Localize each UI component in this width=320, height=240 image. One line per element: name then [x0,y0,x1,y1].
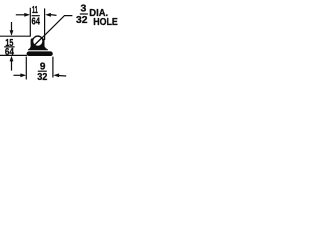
arrowhead left pointing right (9/32) [20,73,26,77]
svg-text:3: 3 [80,2,86,14]
extension line right of 9/32 dimension [52,57,54,78]
svg-text:9: 9 [40,61,46,72]
extension line right of 11/64 dimension [44,8,46,40]
hole outer ring [32,35,44,47]
hole inner (white) [33,37,42,46]
fraction bar 15/64 [4,46,14,48]
fraction bar 9/32 [38,70,47,72]
top extension line of 15/64 dimension [0,35,31,37]
part base pill [27,51,53,56]
svg-text:32: 32 [37,72,48,83]
lower arrow tail (15/64) [11,60,13,70]
arrow tail right (11/64) [50,14,57,17]
upper arrow tail (15/64) [11,22,13,32]
leader line to 3/32 DIA. HOLE [34,16,72,46]
fraction bar 11/64 [32,15,40,17]
part body: dome/bell silhouette [28,38,48,50]
leader slash through hole [33,37,42,46]
svg-text:32: 32 [76,15,88,26]
arrow tail left (9/32) [14,74,22,76]
svg-text:11: 11 [32,5,38,16]
svg-text:HOLE: HOLE [93,17,118,28]
svg-text:64: 64 [31,17,40,28]
arrowhead pointing down (15/64 top) [10,30,14,36]
fraction bar 3/32 [80,13,88,15]
extension line left of 11/64 dimension [29,8,31,36]
arrowhead pointing up (15/64 bottom) [10,56,14,62]
arrowhead right pointing left (11/64) [45,13,51,17]
arrowhead right pointing left (9/32) [53,73,59,77]
arrowhead left pointing right (11/64) [24,13,30,17]
extension line left of 9/32 dimension [25,57,27,80]
svg-text:64: 64 [5,47,14,58]
arrow tail left (11/64) [16,14,26,16]
bottom extension line of 15/64 dimension [0,54,27,56]
arrow tail right (9/32) [58,75,66,78]
